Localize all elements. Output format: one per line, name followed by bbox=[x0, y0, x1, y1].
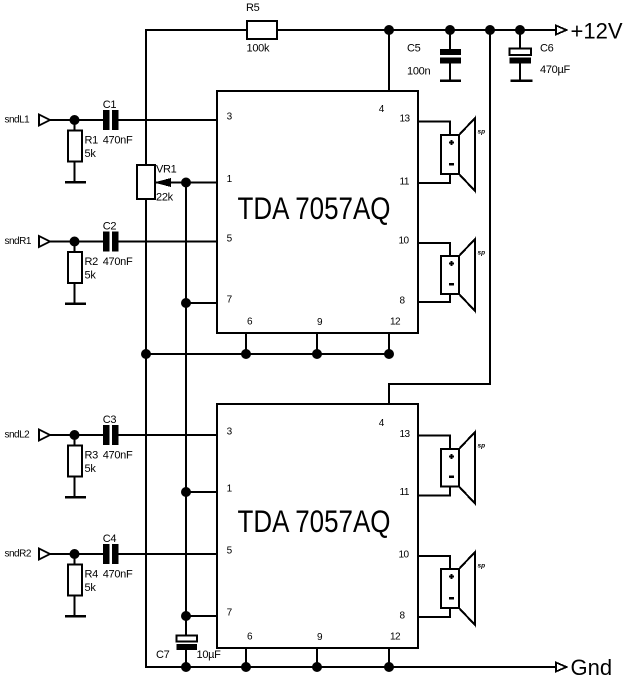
svg-text:470nF: 470nF bbox=[103, 450, 133, 462]
wire Gnd bus bbox=[145, 666, 557, 668]
svg-text:11: 11 bbox=[400, 177, 410, 188]
op-amp U1 TDA7057AQ body bbox=[217, 91, 418, 333]
port +12V arrow bbox=[556, 26, 567, 35]
wire U2 pin 12 drop bbox=[388, 647, 390, 667]
wire sndL2 input to C3 bbox=[49, 434, 105, 436]
node U1 pin7 junction bbox=[181, 298, 191, 308]
potentiometer VR1 bbox=[137, 165, 155, 199]
svg-text:470nF: 470nF bbox=[103, 569, 133, 581]
node +12V/pin4 junction bbox=[384, 25, 394, 35]
node +12V/C6 junction bbox=[515, 25, 525, 35]
wire U2 pin 7 bbox=[186, 615, 218, 617]
svg-text:C4: C4 bbox=[103, 533, 117, 545]
input port sndR1 bbox=[39, 236, 50, 247]
speaker LS1 polarity marks bbox=[449, 142, 454, 144]
speaker LS3 bbox=[459, 432, 475, 504]
wire R3 leg bbox=[74, 435, 76, 497]
wire U1 ground bus bbox=[145, 353, 389, 355]
wire speaker LS1 + lead bbox=[417, 122, 450, 136]
node U1 pin9 junction bbox=[312, 349, 322, 359]
ground R4 bbox=[65, 615, 86, 618]
svg-text:5k: 5k bbox=[85, 270, 97, 282]
svg-text:C5: C5 bbox=[407, 42, 421, 54]
input port sndL2 bbox=[39, 430, 50, 441]
wire speaker LS3 + lead bbox=[417, 436, 450, 450]
wire U1 pin 4 supply drop bbox=[388, 29, 390, 92]
svg-text:5k: 5k bbox=[85, 463, 97, 475]
resistor R4 bbox=[68, 565, 82, 596]
wire U2 pin 9 drop bbox=[316, 647, 318, 667]
resistor R3 bbox=[68, 446, 82, 477]
svg-text:+12V: +12V bbox=[571, 19, 623, 44]
svg-text:sp: sp bbox=[478, 443, 486, 450]
wire U1 pin 7 bbox=[186, 302, 218, 304]
wire C4 to IC pin bbox=[117, 553, 218, 555]
wire sndR2 input to C4 bbox=[49, 553, 105, 555]
resistor R5 bbox=[247, 21, 277, 39]
svg-text:13: 13 bbox=[400, 429, 411, 440]
svg-text:sp: sp bbox=[478, 563, 486, 570]
capacitor C3 bbox=[103, 425, 110, 445]
wire volume bus (x=186) bbox=[185, 183, 187, 636]
svg-text:13: 13 bbox=[400, 113, 411, 124]
wire U2 pin 1 bbox=[186, 491, 218, 493]
svg-text:10µF: 10µF bbox=[197, 649, 222, 661]
svg-text:470nF: 470nF bbox=[103, 256, 133, 268]
speaker LS1 bbox=[459, 118, 475, 191]
node U2 pin1 junction bbox=[181, 487, 191, 497]
ground C6 bbox=[511, 79, 533, 82]
svg-text:5k: 5k bbox=[85, 582, 97, 594]
resistor R2 bbox=[68, 252, 82, 283]
svg-text:sndL2: sndL2 bbox=[5, 429, 31, 440]
wire left ground branch (x=146) bbox=[145, 29, 147, 668]
node U2 pin6/Gnd junction bbox=[241, 662, 251, 672]
ground R1 bbox=[65, 181, 86, 184]
svg-text:12: 12 bbox=[390, 316, 401, 327]
svg-text:R3: R3 bbox=[85, 450, 99, 462]
port Gnd arrow bbox=[556, 663, 567, 672]
svg-text:5k: 5k bbox=[85, 148, 97, 160]
wire R1 leg bbox=[74, 120, 76, 182]
wire speaker LS2 - lead bbox=[417, 294, 450, 302]
wire U2 pin 4 supply feed bbox=[389, 30, 490, 405]
wire speaker LS4 + lead bbox=[417, 556, 450, 569]
wire sndL1 input to C1 bbox=[49, 119, 105, 121]
wire +12V rail bbox=[145, 29, 557, 31]
resistor R1 bbox=[68, 131, 82, 162]
ground R2 bbox=[65, 302, 86, 305]
node sndR2/R4 junction bbox=[70, 549, 80, 559]
potentiometer VR1 wiper arrow bbox=[156, 179, 171, 187]
capacitor C5 bbox=[440, 49, 461, 55]
svg-text:12: 12 bbox=[390, 632, 401, 643]
wire U1 pin 12 drop bbox=[388, 332, 390, 354]
wire U1 pin 6 drop bbox=[245, 332, 247, 354]
ground C5 bbox=[440, 79, 461, 82]
svg-text:C1: C1 bbox=[103, 99, 117, 111]
svg-text:sp: sp bbox=[478, 129, 486, 136]
svg-text:100k: 100k bbox=[247, 43, 270, 55]
svg-text:Gnd: Gnd bbox=[571, 655, 613, 680]
capacitor C6 (polarized) bbox=[510, 49, 532, 56]
svg-text:11: 11 bbox=[400, 487, 410, 498]
svg-text:VR1: VR1 bbox=[156, 164, 177, 176]
svg-text:sp: sp bbox=[478, 250, 486, 257]
wire speaker LS2 + lead bbox=[417, 243, 450, 256]
wire VR1 wiper to U1 pin 1 bbox=[155, 182, 218, 184]
speaker LS2 polarity marks bbox=[449, 263, 454, 265]
wire speaker LS4 - lead bbox=[417, 608, 450, 617]
node +12V/C5 junction bbox=[445, 25, 455, 35]
node U1 gnd bus left bbox=[141, 349, 151, 359]
svg-text:C7: C7 bbox=[156, 649, 170, 661]
svg-text:C6: C6 bbox=[540, 42, 554, 54]
op-amp U2 TDA7057AQ body bbox=[217, 404, 418, 648]
wire R4 leg bbox=[74, 554, 76, 616]
speaker LS2 bbox=[459, 239, 475, 311]
svg-text:R5: R5 bbox=[246, 2, 260, 14]
wire speaker LS1 - lead bbox=[417, 174, 450, 183]
capacitor C7 (polarized) bbox=[177, 636, 198, 642]
svg-text:10: 10 bbox=[399, 550, 410, 561]
svg-text:100n: 100n bbox=[407, 66, 430, 78]
wire C2 to IC pin bbox=[117, 241, 218, 243]
svg-text:22k: 22k bbox=[156, 192, 174, 204]
node sndR1/R2 junction bbox=[70, 237, 80, 247]
capacitor C1 bbox=[103, 110, 110, 130]
wire sndR1 input to C2 bbox=[49, 241, 105, 243]
input port sndL1 bbox=[39, 115, 50, 126]
svg-text:R1: R1 bbox=[85, 135, 99, 147]
speaker LS4 polarity marks bbox=[449, 576, 454, 578]
node C7/Gnd junction bbox=[181, 662, 191, 672]
svg-text:sndR2: sndR2 bbox=[5, 548, 32, 559]
svg-text:R4: R4 bbox=[85, 569, 99, 581]
wire R2 leg bbox=[74, 242, 76, 304]
svg-text:R2: R2 bbox=[85, 256, 99, 268]
node U1 pin6 junction bbox=[241, 349, 251, 359]
svg-text:TDA 7057AQ: TDA 7057AQ bbox=[238, 190, 391, 226]
node U1 pin12 junction bbox=[384, 349, 394, 359]
wire C1 to IC pin bbox=[117, 119, 218, 121]
input port sndR2 bbox=[39, 549, 50, 560]
node U2 pin12/Gnd junction bbox=[384, 662, 394, 672]
wire U2 pin 6 drop bbox=[245, 647, 247, 667]
ground R3 bbox=[65, 496, 86, 499]
wire U1 pin 9 drop bbox=[316, 332, 318, 354]
wire C5 leads bbox=[449, 30, 451, 50]
svg-text:sndL1: sndL1 bbox=[5, 114, 31, 125]
svg-text:10: 10 bbox=[399, 236, 410, 247]
wire C3 to IC pin bbox=[117, 434, 218, 436]
capacitor C4 bbox=[103, 544, 110, 564]
svg-text:sndR1: sndR1 bbox=[5, 236, 32, 247]
wire speaker LS3 - lead bbox=[417, 487, 450, 496]
node sndL1/R1 junction bbox=[70, 115, 80, 125]
svg-text:TDA 7057AQ: TDA 7057AQ bbox=[238, 503, 391, 539]
speaker LS4 bbox=[459, 552, 475, 625]
svg-text:470nF: 470nF bbox=[103, 135, 133, 147]
node sndL2/R3 junction bbox=[70, 430, 80, 440]
node U2 pin9/Gnd junction bbox=[312, 662, 322, 672]
node +12V/U2 feed junction bbox=[485, 25, 495, 35]
svg-text:C3: C3 bbox=[103, 414, 117, 426]
node VR1 wiper junction bbox=[181, 178, 191, 188]
speaker LS3 polarity marks bbox=[449, 456, 454, 458]
wire C6 leads bbox=[519, 30, 521, 50]
svg-text:C2: C2 bbox=[103, 220, 117, 232]
node U2 pin7 junction bbox=[181, 611, 191, 621]
svg-text:470µF: 470µF bbox=[540, 64, 570, 76]
capacitor C2 bbox=[103, 232, 110, 252]
